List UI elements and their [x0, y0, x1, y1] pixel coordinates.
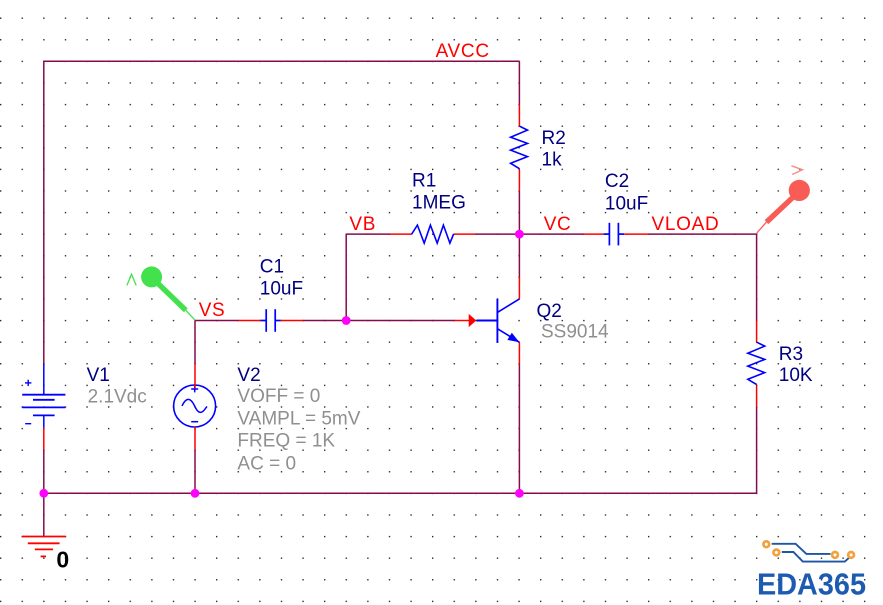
- svg-text:EDA365: EDA365: [757, 567, 866, 602]
- resistor R1 pin 1: [389, 233, 411, 235]
- resistor R2 body: [511, 126, 528, 169]
- wire left vertical (AVCC to V1): [43, 61, 45, 364]
- svg-text:10uF: 10uF: [260, 279, 303, 300]
- capacitor C2 pin 1: [584, 233, 604, 235]
- resistor R2 pin 2: [518, 169, 520, 191]
- svg-text:Q2: Q2: [537, 301, 562, 322]
- wire VB horizontal to R1: [346, 233, 389, 235]
- svg-text:VAMPL = 5mV: VAMPL = 5mV: [237, 408, 360, 429]
- svg-text:1MEG: 1MEG: [412, 192, 466, 213]
- capacitor C2 pin 2: [624, 233, 649, 235]
- svg-text:V2: V2: [237, 365, 260, 386]
- transistor Q2 emitter pin: [518, 342, 520, 363]
- svg-text:0: 0: [56, 547, 69, 573]
- ground symbol 0: [22, 537, 66, 557]
- svg-text:VC: VC: [544, 214, 572, 235]
- junction at Q2 emitter bottom node: [515, 489, 524, 498]
- resistor R3 pin 1: [756, 321, 758, 343]
- svg-text:VB: VB: [349, 214, 376, 235]
- svg-text:R3: R3: [779, 344, 803, 365]
- source V1 battery body: [22, 364, 65, 428]
- svg-text:V1: V1: [87, 365, 110, 386]
- wire ground stub: [43, 493, 45, 536]
- source V2 sine source body: [174, 385, 216, 427]
- svg-text:R2: R2: [542, 128, 566, 149]
- wire base net to Q2: [346, 320, 454, 322]
- svg-text:VOFF = 0: VOFF = 0: [237, 386, 320, 407]
- junction at V2 bottom node: [191, 489, 200, 498]
- svg-text:VS: VS: [199, 300, 226, 321]
- resistor R1 pin 2: [454, 233, 476, 235]
- resistor R2 pin 1: [518, 105, 520, 127]
- wire Q2 emitter to bottom rail: [518, 364, 520, 494]
- wire VB vertical: [345, 234, 347, 320]
- svg-text:SS9014: SS9014: [541, 322, 609, 343]
- wire V2 to bottom rail: [194, 450, 196, 493]
- wire R2 to VC node: [518, 191, 520, 234]
- transistor Q2 base pin: [455, 320, 470, 322]
- junction at VC node: [515, 230, 524, 239]
- wire C2 to VLOAD corner: [649, 233, 757, 235]
- svg-text:FREQ = 1K: FREQ = 1K: [237, 431, 335, 452]
- voltage probe marker green at VS: [127, 266, 195, 320]
- wire R3 to bottom rail: [756, 407, 758, 493]
- svg-text:10uF: 10uF: [605, 193, 648, 214]
- transistor Q2 current marker arrow: [469, 314, 477, 327]
- EDA365 logo pads: [763, 541, 854, 557]
- wire C1 to VB node: [303, 320, 346, 322]
- svg-text:AVCC: AVCC: [436, 41, 490, 62]
- svg-text:AC = 0: AC = 0: [237, 453, 296, 474]
- wire VC node to C2: [519, 233, 583, 235]
- voltage probe marker red at VLOAD: [757, 166, 810, 233]
- wire VLOAD vertical to R3: [756, 233, 758, 320]
- wire AVCC to R2: [518, 61, 520, 104]
- capacitor C1 pin 2: [281, 320, 303, 322]
- resistor R3 pin 2: [756, 385, 758, 407]
- transistor Q2 emitter arrowhead: [507, 333, 519, 343]
- source V1 pin 2: [43, 428, 45, 450]
- capacitor C1 pin 1: [238, 320, 260, 322]
- wire V1 minus to bottom rail: [43, 450, 45, 493]
- svg-text:1k: 1k: [542, 149, 563, 170]
- wire VS horizontal to C1: [195, 320, 238, 322]
- wire VC node to Q2 collector: [518, 234, 520, 277]
- transistor Q2 collector pin: [518, 277, 520, 299]
- wire R1 to VC node: [476, 233, 520, 235]
- junction at VB/base node: [342, 316, 351, 325]
- transistor Q2 body: [476, 299, 519, 343]
- svg-text:2.1Vdc: 2.1Vdc: [88, 387, 147, 408]
- svg-text:10K: 10K: [779, 365, 813, 386]
- capacitor C1 body: [261, 309, 281, 332]
- source V2 pin 2: [194, 427, 196, 451]
- EDA365 logo traces: [772, 544, 850, 562]
- wire AVCC top rail: [44, 60, 520, 62]
- wire bottom rail: [44, 492, 757, 494]
- svg-text:VLOAD: VLOAD: [652, 214, 720, 235]
- svg-text:C2: C2: [605, 171, 629, 192]
- wire VS to V2: [194, 321, 196, 364]
- junction at bottom-left ground node: [39, 489, 48, 498]
- svg-text:R1: R1: [412, 171, 436, 192]
- resistor R1 body: [412, 225, 454, 243]
- resistor R3 body: [748, 342, 765, 384]
- svg-text:C1: C1: [260, 257, 284, 278]
- capacitor C2 body: [604, 223, 624, 246]
- source V2 pin 1: [194, 364, 196, 389]
